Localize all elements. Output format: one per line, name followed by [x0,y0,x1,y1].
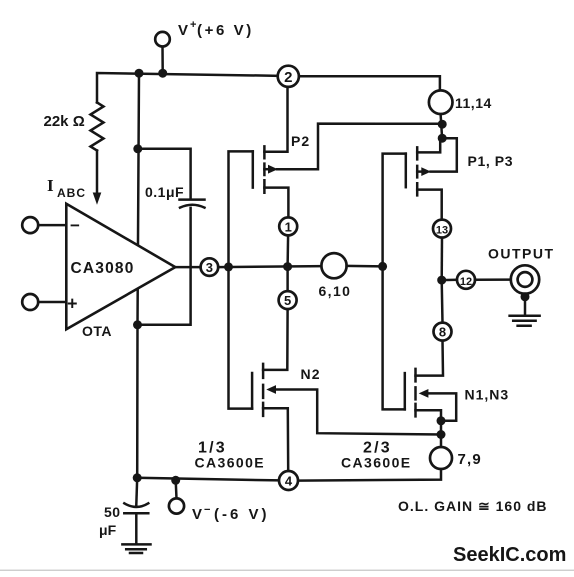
resistor R 22k [91,103,104,151]
transistor N1N3 channel [414,369,417,417]
terminal V+ [155,32,170,47]
node dot x137 y325 [133,320,142,329]
wire I_ABC arrow [96,151,99,194]
svg-text:7,9: 7,9 [458,451,482,468]
svg-text:−: − [70,216,80,235]
terminal op-amp inverting input [22,217,38,233]
pin circle 11,14 [429,90,453,114]
svg-text:0.1μF: 0.1μF [145,184,184,200]
wire top rail right [299,76,440,91]
node dot output [437,276,446,285]
wire P1P3 body to node [431,138,457,171]
wire circle12 to output terminal [475,278,511,281]
svg-text:OTA: OTA [82,323,112,339]
op-amp U1 CA3080 triangle [66,204,175,329]
pin circle 1 [279,217,297,235]
wire circle610 to right column [347,265,383,268]
node dot V- branch [171,476,180,485]
wire op-amp output [175,266,200,269]
svg-text:4: 4 [285,474,293,489]
wire 50uF to ground [135,513,138,544]
svg-text:(+6 V): (+6 V) [197,22,254,39]
terminal op-amp non-inverting input [22,294,38,310]
wire left gate column (P2/N2 gates) [229,151,253,408]
pin circle 6,10 [321,253,346,278]
svg-text:ABC: ABC [57,186,86,200]
svg-text:OUTPUT: OUTPUT [488,246,555,262]
pin circle 5 [279,291,297,309]
svg-text:CA3600E: CA3600E [341,455,412,471]
svg-text:6,10: 6,10 [319,283,352,299]
node dot bottom-left [133,473,142,482]
transistor P2 body arrow [264,168,268,171]
svg-text:N1,N3: N1,N3 [465,387,510,403]
svg-text:11,14: 11,14 [455,95,492,111]
ground symbol output [510,316,540,326]
wire 0.1uF top branch [138,149,191,199]
wire P2 body to top-right node [277,124,442,170]
transistor N1N3 body arrow [419,389,429,398]
wire circle1 to node [286,235,289,266]
node dot y138 [438,134,447,143]
svg-text:O.L. GAIN ≅ 160 dB: O.L. GAIN ≅ 160 dB [398,498,548,514]
transistor P1P3 gate bar [405,154,408,188]
node dot gate column [224,262,233,271]
node dot y124 [438,120,447,129]
svg-text:(-6 V): (-6 V) [214,506,270,523]
transistor P1P3 body arrow [417,170,422,173]
transistor N1N3 gate bar [404,373,407,409]
wire V- stub [174,480,177,498]
wire N1N3 body to node [428,393,456,420]
node dot y420 [437,416,446,425]
node dot x137 y148 [133,144,142,153]
svg-text:−: − [204,504,210,516]
transistor N2 gate bar [251,373,254,409]
wire inverting input lead [38,224,66,227]
pin circle 3 [201,258,219,276]
wire circle13 to node [440,238,443,281]
svg-text:13: 13 [436,225,448,237]
svg-text:+: + [67,294,78,314]
wire node to circle12 [442,279,457,282]
transistor P2 source arm down [264,188,288,218]
pin circle 13 [433,220,451,238]
wire to 50uF cap [135,478,138,505]
wire circle8 to N1N3 drain [416,341,444,376]
capacitor C 0.1uF [180,198,205,201]
node dot at rail x162 [158,69,167,78]
node dot at rail x139 [135,69,144,78]
transistor P2 drain arm to circle2 [264,87,287,152]
svg-text:8: 8 [439,325,446,340]
node dot right gate column [378,262,387,271]
svg-text:μF: μF [99,522,117,538]
wire N2 body to bottom-right node [276,390,442,435]
svg-text:+: + [190,19,196,31]
svg-text:3: 3 [206,260,213,275]
node dot below output [521,292,530,301]
wire output to ground [524,297,527,314]
wire bottom rail [137,478,279,481]
transistor P2 gate bar [252,151,255,187]
transistor N2 body arrow [266,385,276,394]
svg-text:2: 2 [284,69,292,86]
wire top rail left (V+ rail) [97,73,278,103]
transistor P2 channel [263,146,266,192]
svg-text:N2: N2 [301,366,321,382]
terminal OUTPUT double circle [511,265,539,293]
svg-text:50: 50 [104,504,121,520]
svg-text:V: V [178,22,189,39]
svg-text:CA3080: CA3080 [71,260,135,277]
pin circle 12 [457,271,475,289]
transistor P1P3 source arm up [417,138,440,152]
pin circle 2 [278,66,299,87]
wire right gate column (P1P3/N1N3 gates) [383,154,406,410]
svg-text:I: I [47,176,54,195]
svg-text:V: V [192,506,203,523]
transistor N2 source arm down [263,408,288,471]
svg-text:P1, P3: P1, P3 [468,153,514,169]
pin circle 7,9 [430,447,452,469]
svg-text:P2: P2 [291,133,310,149]
pin circle 8 [434,323,452,341]
node dot y434 [437,430,446,439]
terminal V- [169,498,184,513]
svg-text:CA3600E: CA3600E [195,455,266,471]
svg-text:12: 12 [460,276,472,288]
wire node to circle8 [440,280,443,323]
svg-text:SeekIC.com: SeekIC.com [453,544,566,566]
wire right column top (circle 11,14 feed) [441,114,443,138]
wire 0.1uF bottom branch [138,208,191,325]
svg-text:22k Ω: 22k Ω [44,113,85,130]
wire output node rail [218,266,321,267]
transistor P1P3 drain arm down [417,190,442,220]
pin circle 4 [279,471,298,490]
faint bottom scan line [0,570,574,571]
svg-text:1: 1 [285,219,292,234]
wire V+ terminal stub [161,46,164,73]
ground symbol left [122,544,150,553]
wire main left vertical x137.5 [137,73,139,478]
wire node to circle5 [286,267,289,292]
wire circle5 to N2 drain [263,309,288,370]
svg-text:5: 5 [284,293,291,308]
wire non-inverting input lead [38,301,66,304]
transistor P1P3 channel [416,147,419,195]
capacitor C 50uF [124,503,148,507]
transistor N1N3 source arm down [416,410,442,447]
node dot below circle1 [283,262,292,271]
transistor N2 channel [262,364,265,416]
